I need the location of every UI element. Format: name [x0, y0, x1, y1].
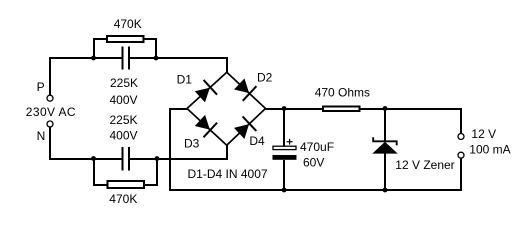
wire capacitor 470uF bottom lead: [283, 160, 285, 190]
svg-text:230V AC: 230V AC: [26, 105, 76, 119]
diode D2: [232, 77, 256, 101]
diode D4: [232, 116, 256, 140]
capacitor 225K top plates: [123, 47, 129, 70]
svg-text:60V: 60V: [303, 156, 324, 170]
svg-text:D2: D2: [257, 71, 273, 85]
svg-text:D1-D4 IN 4007: D1-D4 IN 4007: [188, 167, 268, 181]
svg-text:P: P: [37, 80, 45, 94]
diode D3: [193, 113, 217, 137]
svg-text:100 mA: 100 mA: [469, 142, 510, 156]
junction dot top-left RC right: [154, 56, 159, 61]
wire bottom AC line to bridge bottom: [130, 145, 227, 159]
svg-text:D4: D4: [249, 134, 265, 148]
terminal output negative circle: [458, 152, 464, 158]
wire bridge arm D4: [227, 109, 266, 146]
wire bridge arm D2: [227, 72, 266, 108]
wire bottom resistor loop: [94, 159, 157, 185]
junction dot bottom-left RC left: [91, 156, 96, 161]
svg-text:N: N: [37, 129, 46, 143]
wire P riser to top rail: [50, 58, 122, 95]
svg-text:12 V: 12 V: [471, 127, 496, 141]
capacitor 470uF plus sign: [287, 139, 293, 145]
terminal P circle: [47, 95, 53, 101]
wire zener top lead: [384, 109, 386, 141]
svg-text:D1: D1: [177, 72, 193, 86]
svg-text:470K: 470K: [109, 192, 137, 206]
wire resistor to output plus terminal: [360, 109, 461, 133]
capacitor 225K bottom plates: [123, 147, 129, 170]
junction dot capacitor top: [282, 106, 287, 111]
zener diode 12V triangle: [372, 142, 397, 154]
wire bridge right corner to resistor: [266, 108, 324, 110]
diode D1: [193, 80, 217, 104]
terminal N circle: [47, 121, 53, 127]
junction dot zener bottom: [383, 188, 388, 193]
svg-text:225K: 225K: [110, 76, 138, 90]
wire zener bottom lead: [384, 154, 386, 190]
svg-text:470K: 470K: [114, 17, 142, 31]
wire bridge arm D3: [187, 109, 227, 146]
zener diode 12V cathode bar: [373, 137, 397, 145]
svg-text:D3: D3: [184, 137, 200, 151]
capacitor 470uF top plate: [273, 146, 296, 149]
wire bridge left corner to negative rail and output minus: [170, 109, 461, 190]
junction dot top-left RC left: [91, 56, 96, 61]
junction dot zener top: [383, 106, 388, 111]
resistor 470K bottom: [107, 181, 144, 188]
capacitor 470uF bottom plate: [273, 155, 297, 160]
svg-text:400V: 400V: [110, 129, 138, 143]
junction dot capacitor bottom: [282, 188, 287, 193]
svg-text:470uF: 470uF: [300, 140, 334, 154]
svg-text:12 V Zener: 12 V Zener: [395, 158, 454, 172]
wire top resistor loop: [94, 39, 156, 58]
svg-text:400V: 400V: [110, 93, 138, 107]
svg-text:225K: 225K: [110, 113, 138, 127]
wire top rail right segment to bridge top: [130, 58, 227, 73]
resistor 470 Ohms: [323, 106, 360, 110]
wire bridge arm D1: [187, 72, 227, 108]
terminal output positive circle: [458, 134, 464, 140]
resistor 470K top: [107, 36, 143, 42]
wire N drop to bottom AC line: [50, 127, 122, 159]
wire capacitor 470uF top lead: [283, 109, 285, 146]
svg-text:470 Ohms: 470 Ohms: [315, 86, 370, 100]
junction dot bottom-left RC right: [155, 156, 160, 161]
